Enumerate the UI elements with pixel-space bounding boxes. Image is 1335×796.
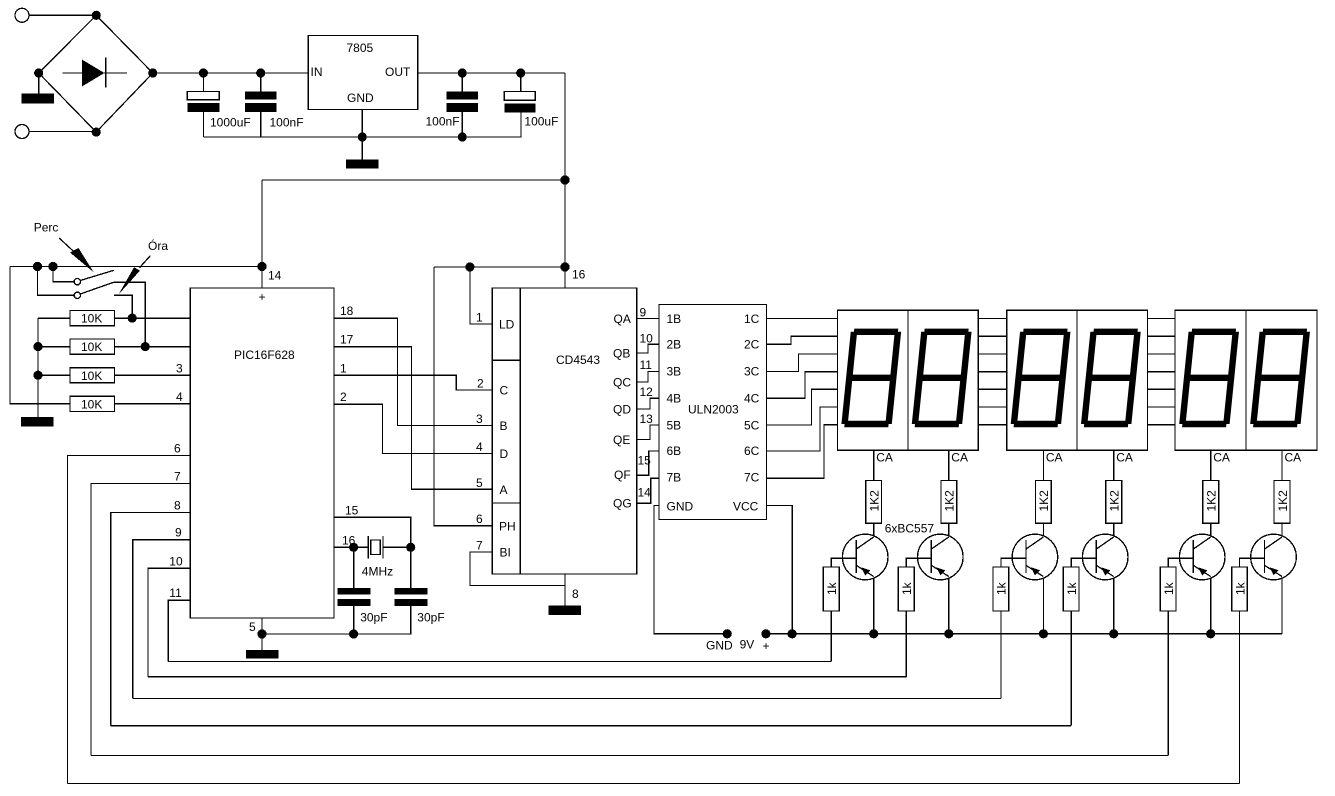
- svg-text:10: 10: [169, 554, 183, 568]
- wire R6 to Q2 collector: [948, 523, 950, 536]
- svg-text:BI: BI: [500, 546, 511, 560]
- ground at resistor chain: [21, 417, 54, 427]
- wire PIC pin9: [133, 540, 191, 699]
- wire R13 to pin9 line: [1000, 611, 1002, 699]
- svg-text:B: B: [500, 419, 508, 433]
- svg-text:4: 4: [476, 440, 483, 454]
- svg-text:QA: QA: [614, 312, 631, 326]
- node LD feed: [465, 262, 474, 271]
- svg-text:30pF: 30pF: [417, 611, 444, 625]
- wire BI to ground stem: [470, 552, 565, 585]
- wire SW1 throw to R1 node: [114, 295, 132, 318]
- transistor Q4 BC557: [1063, 534, 1128, 611]
- wire R3 output to PIC pin3: [114, 374, 190, 376]
- capacitor C1 1000uF: [187, 73, 250, 137]
- ground at bridge left vertex: [22, 73, 55, 103]
- wire R4 output to PIC pin4: [114, 403, 190, 405]
- wire 7805 OUT rail: [418, 72, 565, 74]
- svg-text:GND: GND: [347, 91, 374, 105]
- wire to switch contact 2: [38, 267, 75, 296]
- node R2 input: [33, 342, 42, 351]
- svg-text:IN: IN: [311, 65, 323, 79]
- wire DS1 CA lead: [873, 450, 875, 480]
- wire DS4 CA lead: [1113, 450, 1115, 480]
- node Q1 emitter: [869, 629, 878, 638]
- node bridge bottom: [92, 128, 101, 137]
- wire QA to ULN 1B: [637, 318, 659, 320]
- capacitor C6 30pF: [395, 547, 445, 624]
- display DS2 seven-segment glyph: [915, 332, 968, 424]
- svg-text:D: D: [500, 447, 509, 461]
- svg-text:1: 1: [476, 311, 483, 325]
- svg-text:CA: CA: [876, 451, 893, 465]
- svg-text:1k: 1k: [995, 581, 1009, 595]
- battery GND terminal node: [723, 629, 732, 638]
- svg-text:PIC16F628: PIC16F628: [234, 348, 295, 362]
- AC input terminal J1: [15, 8, 29, 22]
- svg-text:QB: QB: [613, 346, 630, 360]
- svg-text:4: 4: [176, 390, 183, 404]
- resistor R3 10K: [70, 368, 114, 383]
- svg-text:+: +: [763, 639, 770, 653]
- wire DS6 CA lead: [1281, 450, 1283, 480]
- node pin5: [257, 629, 266, 638]
- svg-text:2: 2: [477, 377, 484, 391]
- svg-text:C: C: [500, 384, 509, 398]
- svg-text:OUT: OUT: [385, 65, 411, 79]
- wire LD/PH feed rail: [434, 266, 565, 268]
- wire base line pin11 to Q1: [168, 661, 831, 663]
- svg-text:18: 18: [340, 304, 354, 318]
- svg-text:Óra: Óra: [148, 238, 168, 253]
- svg-text:GND: GND: [667, 500, 694, 514]
- svg-text:1000uF: 1000uF: [210, 116, 251, 130]
- svg-text:7B: 7B: [667, 470, 682, 484]
- node Q4 emitter: [1109, 629, 1118, 638]
- resistor R9 1K2: [1203, 481, 1219, 524]
- svg-text:1K2: 1K2: [943, 490, 957, 512]
- svg-text:1K2: 1K2: [1205, 490, 1219, 512]
- node switch feed 1: [48, 262, 57, 271]
- ground at PIC pin5: [246, 650, 279, 659]
- svg-text:LD: LD: [499, 318, 515, 332]
- wire PIC pin16: [334, 546, 368, 548]
- wire far-left vertical to R4 input: [10, 267, 70, 404]
- node switch feed 2: [33, 262, 42, 271]
- wire PIC pin2 to CD4543 D: [334, 404, 492, 453]
- svg-text:10: 10: [640, 331, 654, 345]
- AC input terminal J2: [15, 125, 29, 139]
- svg-text:Perc: Perc: [34, 221, 59, 235]
- resistor R7 1K2: [1036, 481, 1052, 524]
- switch SW2 contact circle: [74, 292, 80, 298]
- display DS1 seven-segment glyph: [845, 332, 898, 424]
- wire ULN 1C segment bus a: [767, 318, 1180, 320]
- wire input ground bus: [203, 113, 521, 138]
- wire R8 to Q4 collector: [1113, 523, 1115, 536]
- svg-text:30pF: 30pF: [360, 611, 387, 625]
- node +5V corner: [560, 175, 569, 184]
- svg-text:6: 6: [476, 512, 483, 526]
- node bridge top: [92, 11, 101, 20]
- wire ULN 5C segment bus e: [767, 389, 1180, 425]
- switch SW1 contact circle: [74, 279, 80, 285]
- wire R10 to Q6 collector: [1281, 523, 1283, 536]
- transistor Q6 BC557: [1232, 534, 1297, 611]
- svg-text:1k: 1k: [1065, 581, 1079, 595]
- wire R12 to pin10 line: [905, 611, 907, 677]
- node pin14 at switch rail: [257, 262, 266, 271]
- svg-text:11: 11: [640, 358, 653, 372]
- svg-text:1K2: 1K2: [1276, 490, 1290, 512]
- svg-text:1k: 1k: [1233, 581, 1247, 595]
- resistor R5 1K2: [866, 481, 882, 524]
- svg-text:6C: 6C: [744, 444, 760, 458]
- svg-text:ULN2003: ULN2003: [688, 403, 739, 417]
- crystal X1 4MHz: [362, 536, 393, 579]
- wire ULN 6C segment bus f: [767, 407, 1180, 451]
- microcontroller U2 PIC16F628: [190, 288, 334, 618]
- svg-text:+: +: [259, 290, 266, 304]
- switch SW2 lever: [81, 282, 114, 294]
- svg-text:13: 13: [640, 412, 654, 426]
- svg-text:2C: 2C: [744, 338, 760, 352]
- wire base line pin9 to Q3: [133, 698, 1001, 700]
- capacitor C3 100nF: [426, 73, 478, 137]
- wire ULN GND to battery: [654, 506, 727, 634]
- wire base line pin8 to Q4: [111, 725, 1071, 727]
- wire R1 output to PIC: [114, 317, 190, 319]
- wire base line pin7 to Q5: [91, 755, 1168, 757]
- svg-text:5: 5: [476, 476, 483, 490]
- svg-text:5C: 5C: [744, 418, 760, 432]
- svg-text:6B: 6B: [667, 444, 682, 458]
- wire SW2 throw to R2 node: [114, 282, 145, 346]
- wire crystal right: [383, 546, 411, 548]
- wire ULN 3C segment bus c: [767, 354, 1180, 372]
- wire PIC pin14 vertical: [261, 180, 263, 288]
- wire CD4543 pin8 ground stem: [564, 574, 566, 606]
- wire R15 to pin7 line: [1167, 611, 1169, 756]
- wire R3 input: [38, 374, 70, 376]
- wire R7 to Q3 collector: [1042, 523, 1044, 536]
- wire PIC pin1 to CD4543 C: [334, 375, 492, 390]
- resistor R8 1K2: [1106, 481, 1122, 524]
- wire QC to ULN 3B: [637, 371, 659, 382]
- display DS4 digit box: [1077, 310, 1147, 450]
- wire 9V rail: [766, 633, 1282, 635]
- wire R11 to pin11 line: [830, 611, 832, 662]
- wire PIC pin15: [334, 517, 411, 547]
- decoder U3 CD4543: [492, 288, 637, 574]
- svg-text:7: 7: [174, 469, 181, 483]
- ground at 7805: [346, 160, 378, 169]
- svg-text:10K: 10K: [81, 397, 102, 411]
- wire switch rail: [10, 266, 262, 268]
- display DS2 digit box: [908, 310, 978, 450]
- svg-text:16: 16: [572, 268, 586, 282]
- svg-text:7C: 7C: [744, 470, 760, 484]
- node C3 top: [458, 68, 467, 77]
- wire oscillator ground bus: [262, 606, 411, 634]
- wire PIC pin17 to CD4543 A: [334, 347, 492, 490]
- svg-text:QG: QG: [613, 497, 632, 511]
- wire QF to ULN 6B: [637, 451, 659, 475]
- node Q3 emitter: [1039, 629, 1048, 638]
- svg-text:3: 3: [176, 361, 183, 375]
- svg-text:11: 11: [169, 586, 182, 600]
- wire LD feed to pin1: [470, 267, 492, 324]
- node Q5 emitter: [1206, 629, 1215, 638]
- wire Q3 emitter to rail: [1042, 578, 1044, 634]
- display DS4 seven-segment glyph: [1084, 332, 1137, 424]
- svg-text:1k: 1k: [1162, 581, 1176, 595]
- wire PIC pin5 to ground: [261, 618, 263, 650]
- wire base line pin6 to Q6: [67, 783, 1239, 785]
- svg-text:PH: PH: [499, 519, 516, 533]
- display DS5 digit box: [1175, 310, 1246, 450]
- svg-text:2: 2: [340, 390, 347, 404]
- svg-text:1: 1: [340, 361, 347, 375]
- wire PIC pin8: [111, 512, 191, 725]
- wire +5V vertical to CD4543: [564, 73, 566, 288]
- driver U4 ULN2003: [659, 305, 767, 520]
- svg-text:9: 9: [175, 526, 182, 540]
- svg-text:1k: 1k: [900, 581, 914, 595]
- wire Q2 emitter to rail: [948, 578, 950, 634]
- display DS3 digit box: [1007, 310, 1077, 450]
- wire Q6 emitter to rail: [1281, 578, 1283, 634]
- svg-text:1B: 1B: [667, 312, 682, 326]
- svg-text:14: 14: [268, 269, 282, 283]
- wire Q5 emitter to rail: [1210, 578, 1212, 634]
- svg-text:14: 14: [638, 486, 652, 500]
- node crystal left: [349, 543, 358, 552]
- wire Q1 emitter to rail: [873, 578, 875, 634]
- svg-text:1K2: 1K2: [1108, 490, 1122, 512]
- svg-text:7: 7: [476, 539, 483, 553]
- node crystal right: [406, 543, 415, 552]
- svg-text:9: 9: [640, 306, 647, 320]
- wire J2 to bridge bottom: [29, 131, 96, 134]
- svg-text:4B: 4B: [667, 392, 682, 406]
- svg-text:1K2: 1K2: [1037, 490, 1051, 512]
- wire bridge output to 7805 IN: [153, 72, 309, 74]
- svg-text:5: 5: [249, 620, 256, 634]
- wire PIC pin18 to CD4543 B: [334, 318, 492, 425]
- wire PIC pin7: [91, 483, 190, 755]
- wire R5 to Q1 collector: [873, 523, 875, 536]
- svg-text:CA: CA: [951, 451, 968, 465]
- wire Q4 emitter to rail: [1113, 578, 1115, 634]
- resistor R10 1K2: [1274, 481, 1290, 524]
- transistor Q2 BC557: [898, 534, 963, 611]
- svg-text:CD4543: CD4543: [556, 353, 600, 367]
- ground at CD4543 pin8: [549, 606, 582, 616]
- transistor Q5 BC557: [1160, 534, 1225, 611]
- capacitor C5 30pF: [338, 547, 388, 634]
- node bridge right: [148, 68, 157, 77]
- wire ULN 4C segment bus d: [767, 372, 1180, 399]
- Ora pointer arrow: [119, 256, 151, 295]
- svg-text:100nF: 100nF: [426, 115, 460, 129]
- transistor Q3 BC557: [993, 534, 1058, 611]
- node R2 output: [141, 342, 150, 351]
- svg-text:8: 8: [572, 587, 579, 601]
- wire QG to ULN 7B: [637, 478, 659, 503]
- node Q2 emitter: [944, 629, 953, 638]
- node C2 top: [256, 68, 265, 77]
- wire ULN VCC to 9V rail: [767, 506, 793, 634]
- wire base line pin10 to Q2: [148, 676, 906, 678]
- svg-text:3C: 3C: [744, 364, 760, 378]
- capacitor C2 100nF: [245, 73, 304, 137]
- node 7805 GND on bus: [358, 132, 367, 141]
- node +5V at CD4543 feed: [560, 262, 569, 271]
- display DS6 digit box: [1246, 310, 1317, 450]
- wire ground chain vertical: [37, 318, 39, 417]
- svg-text:1K2: 1K2: [868, 490, 882, 512]
- wire PIC pin11: [168, 600, 190, 661]
- wire to switch contact 1: [53, 267, 74, 282]
- display DS5 seven-segment glyph: [1182, 332, 1235, 424]
- capacitor C4 100uF: [504, 73, 558, 129]
- svg-text:QC: QC: [613, 375, 631, 389]
- node R1 output: [128, 314, 137, 323]
- wire DS5 CA lead: [1210, 450, 1212, 480]
- wire R14 to pin8 line: [1070, 611, 1072, 726]
- wire DS2 CA lead: [948, 450, 950, 480]
- svg-text:4C: 4C: [744, 392, 760, 406]
- display DS1 digit box: [837, 310, 908, 450]
- wire PH feed to pin6: [434, 267, 492, 526]
- wire QE to ULN 5B: [637, 425, 659, 440]
- wire R2 output to PIC: [114, 346, 190, 348]
- battery + terminal node: [761, 629, 770, 638]
- svg-text:1k: 1k: [825, 581, 839, 595]
- node R3 input: [33, 371, 42, 380]
- resistor R2 10K: [70, 339, 114, 354]
- wire R9 to Q5 collector: [1210, 523, 1212, 536]
- wire +5V horizontal to PIC pin14: [262, 179, 565, 181]
- svg-text:QE: QE: [613, 433, 630, 447]
- svg-text:17: 17: [340, 333, 354, 347]
- wire PIC pin10: [148, 568, 190, 677]
- svg-text:VCC: VCC: [733, 500, 759, 514]
- node 30pF C5 bottom: [349, 629, 358, 638]
- svg-text:QD: QD: [613, 402, 631, 416]
- svg-text:12: 12: [640, 385, 654, 399]
- wire DS3 CA lead: [1042, 450, 1044, 480]
- svg-text:QF: QF: [614, 468, 631, 482]
- wire R2 input: [38, 346, 70, 348]
- display DS6 seven-segment glyph: [1253, 332, 1306, 424]
- svg-text:2B: 2B: [667, 338, 682, 352]
- diode D1 inside bridge: [63, 57, 128, 87]
- svg-text:3: 3: [476, 412, 483, 426]
- Perc pointer arrow: [59, 238, 93, 272]
- svg-text:10K: 10K: [81, 312, 102, 326]
- svg-text:3B: 3B: [667, 364, 682, 378]
- svg-text:CA: CA: [1116, 451, 1133, 465]
- svg-text:CA: CA: [1213, 451, 1230, 465]
- display DS3 seven-segment glyph: [1014, 332, 1067, 424]
- wire ULN 2C segment bus b: [767, 336, 1180, 344]
- svg-text:6: 6: [174, 442, 181, 456]
- switch SW1 lever: [81, 270, 114, 280]
- svg-text:8: 8: [174, 498, 181, 512]
- svg-text:10K: 10K: [81, 340, 102, 354]
- wire R1 input: [38, 317, 70, 319]
- svg-text:1C: 1C: [744, 312, 760, 326]
- node C4 top: [516, 68, 525, 77]
- svg-text:15: 15: [345, 503, 359, 517]
- node C3 bottom: [458, 132, 467, 141]
- svg-text:5B: 5B: [667, 418, 682, 432]
- svg-text:100nF: 100nF: [270, 116, 304, 130]
- node C1 top: [199, 68, 208, 77]
- svg-text:10K: 10K: [81, 369, 102, 383]
- wire QD to ULN 4B: [637, 398, 659, 409]
- bridge rectifier B1 diamond: [39, 15, 153, 132]
- resistor R6 1K2: [941, 481, 957, 524]
- svg-text:CA: CA: [1046, 451, 1063, 465]
- svg-text:7805: 7805: [347, 41, 374, 55]
- node VCC on rail: [788, 629, 797, 638]
- wire PIC pin6: [67, 456, 190, 784]
- transistor Q1 BC557: [823, 534, 888, 611]
- wire 7805 GND lead: [361, 110, 363, 160]
- svg-text:100uF: 100uF: [524, 115, 558, 129]
- wire R16 to pin6 line: [1239, 611, 1241, 784]
- wire QB to ULN 2B: [637, 344, 659, 353]
- wire ULN 7C segment bus g: [767, 425, 1180, 479]
- resistor R4 10K: [70, 396, 114, 411]
- svg-text:CA: CA: [1285, 451, 1302, 465]
- svg-text:A: A: [500, 483, 508, 497]
- svg-text:9V: 9V: [740, 638, 755, 652]
- svg-text:4MHz: 4MHz: [362, 565, 393, 579]
- svg-text:6xBC557: 6xBC557: [885, 522, 935, 536]
- svg-text:GND: GND: [706, 639, 733, 653]
- wire J1 to bridge top: [29, 14, 96, 16]
- regulator U1 7805: [308, 35, 418, 109]
- resistor R1 10K: [70, 311, 114, 326]
- node bridge left: [34, 68, 43, 77]
